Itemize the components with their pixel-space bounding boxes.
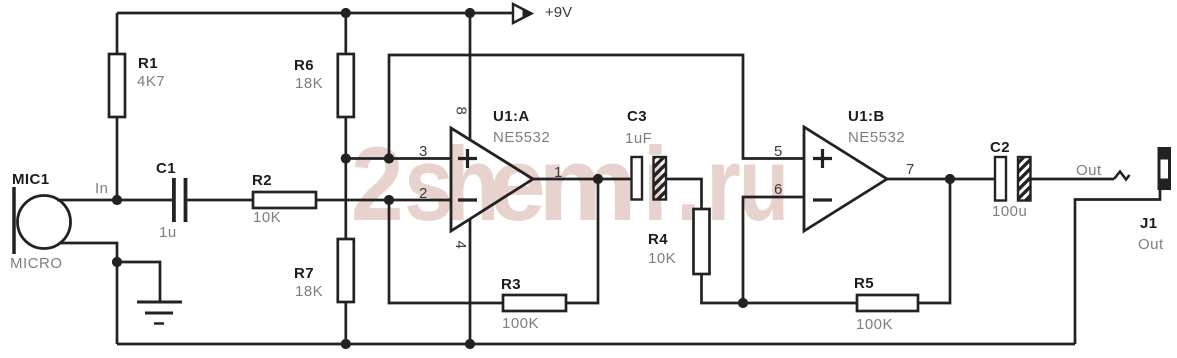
svg-text:4: 4 <box>452 241 469 249</box>
node V+ rail dot <box>465 8 475 18</box>
svg-text:1: 1 <box>554 164 562 181</box>
svg-text:NE5532: NE5532 <box>848 129 905 146</box>
node V- bottom rail dot <box>465 339 475 349</box>
svg-text:1uF: 1uF <box>625 130 652 147</box>
resistor R6 18K <box>294 54 354 117</box>
svg-text:R1: R1 <box>138 55 158 72</box>
wire C3 to R4 <box>666 179 702 209</box>
svg-text:2: 2 <box>419 185 427 202</box>
svg-text:C2: C2 <box>990 139 1010 156</box>
power symbol +9V <box>513 4 572 23</box>
svg-text:R5: R5 <box>854 275 874 292</box>
svg-text:10K: 10K <box>253 209 281 226</box>
svg-text:C1: C1 <box>156 160 176 177</box>
watermark 2shemi.ru <box>351 125 789 244</box>
resistor R5 100K <box>854 275 918 333</box>
svg-text:R2: R2 <box>252 172 272 189</box>
wire C1 to R2 <box>187 199 253 202</box>
svg-text:U1:B: U1:B <box>848 108 885 125</box>
ground <box>137 302 182 324</box>
svg-text:r: r <box>706 125 741 242</box>
jack tip contact caret <box>1114 172 1130 180</box>
svg-text:+9V: +9V <box>545 4 572 21</box>
svg-text:C3: C3 <box>627 108 647 125</box>
svg-text:MIC1: MIC1 <box>12 171 49 188</box>
wire R5 right to output node <box>918 179 950 303</box>
wire R1 top lead <box>116 13 119 54</box>
svg-text:In: In <box>95 180 109 197</box>
node pin3-pin5 link dot <box>384 153 394 163</box>
resistor R2 10K <box>252 172 316 226</box>
wire R7 bottom lead <box>344 302 347 344</box>
svg-text:4K7: 4K7 <box>137 73 165 90</box>
node R7 bottom rail dot <box>341 339 351 349</box>
wire R1 bottom lead to In node <box>116 117 119 200</box>
node mic ground dot <box>112 257 122 267</box>
svg-text:100K: 100K <box>502 315 539 332</box>
wire divider R6-R7 <box>344 117 347 239</box>
wire pin 3 <box>346 157 451 160</box>
svg-text:7: 7 <box>906 161 914 178</box>
svg-text:MICRO: MICRO <box>10 255 63 272</box>
svg-text:10K: 10K <box>648 250 676 267</box>
resistor R4 10K <box>648 209 710 274</box>
wire mic bottom <box>59 243 117 344</box>
svg-text:Out: Out <box>1076 162 1102 179</box>
wire C2 to jack tip <box>1030 178 1114 181</box>
capacitor C3 1uF <box>625 108 666 200</box>
svg-text:3: 3 <box>419 143 427 160</box>
op-amp U1:B <box>804 108 905 231</box>
svg-text:R3: R3 <box>501 276 521 293</box>
node In dot <box>112 195 122 205</box>
resistor R3 100K <box>501 276 566 332</box>
svg-text:m: m <box>538 125 637 242</box>
resistor R7 18K <box>294 239 354 302</box>
node bias pin3 dot <box>341 153 351 163</box>
svg-text:100K: 100K <box>856 316 893 333</box>
svg-text:NE5532: NE5532 <box>493 129 550 146</box>
wire mic top to C1 <box>57 199 172 202</box>
wire pin 6 <box>743 197 804 303</box>
svg-text:5: 5 <box>774 143 782 160</box>
svg-text:1u: 1u <box>159 224 177 241</box>
wire R3 right to output node <box>566 179 598 303</box>
wire bottom rail <box>117 343 1075 346</box>
svg-text:Out: Out <box>1138 236 1164 253</box>
wire V- lower segment <box>469 219 472 344</box>
node pin6 junction dot <box>738 298 748 308</box>
node pin2 feedback dot <box>384 195 394 205</box>
svg-text:6: 6 <box>774 181 782 198</box>
microphone MIC1 <box>10 171 71 272</box>
node R6 top rail dot <box>341 8 351 18</box>
svg-text:U1:A: U1:A <box>493 108 530 125</box>
svg-text:18K: 18K <box>295 75 323 92</box>
svg-text:8: 8 <box>453 107 470 115</box>
svg-text:J1: J1 <box>1140 215 1158 232</box>
svg-text:.: . <box>676 125 701 242</box>
svg-text:18K: 18K <box>295 283 323 300</box>
wire R6 top lead <box>344 13 347 54</box>
svg-text:100u: 100u <box>992 203 1027 220</box>
wire bias to pin 5 of U1:B <box>389 55 804 159</box>
node stage2 output dot <box>945 174 955 184</box>
svg-text:R7: R7 <box>294 265 314 282</box>
svg-text:R4: R4 <box>648 231 668 248</box>
op-amp U1:A <box>451 108 550 231</box>
wire U1:A output <box>533 178 632 181</box>
resistor R1 4K7 <box>109 54 165 117</box>
wire feedback stage1 down <box>389 200 503 303</box>
connector J1 <box>1138 147 1171 253</box>
svg-text:2: 2 <box>351 126 404 243</box>
wire top rail <box>117 12 512 15</box>
wire jack sleeve to bottom rail <box>1075 189 1160 344</box>
wire V+ upper segment <box>469 13 472 141</box>
wire U1:B output to C2 <box>887 178 995 181</box>
wire R4 bottom to R5 <box>702 274 858 303</box>
wire ground branch <box>117 262 160 301</box>
node stage1 output dot <box>593 174 603 184</box>
capacitor C1 1u <box>156 160 187 241</box>
svg-text:R6: R6 <box>294 57 314 74</box>
capacitor C2 100u <box>990 139 1031 220</box>
wire R2 to pin 2 <box>316 199 451 202</box>
